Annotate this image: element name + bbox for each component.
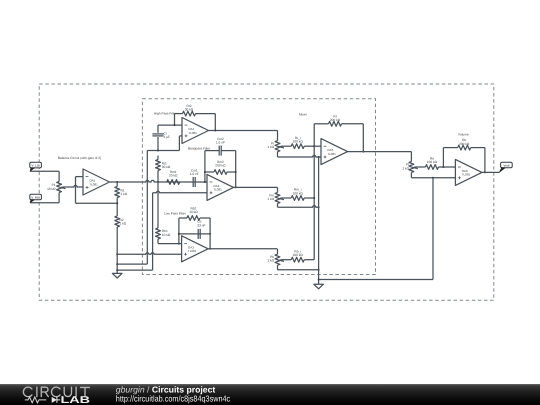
- svg-text:http://circuitlab.com/c8js84q3: http://circuitlab.com/c8js84q3swn4c: [116, 394, 231, 404]
- svg-text:LAB: LAB: [61, 395, 91, 405]
